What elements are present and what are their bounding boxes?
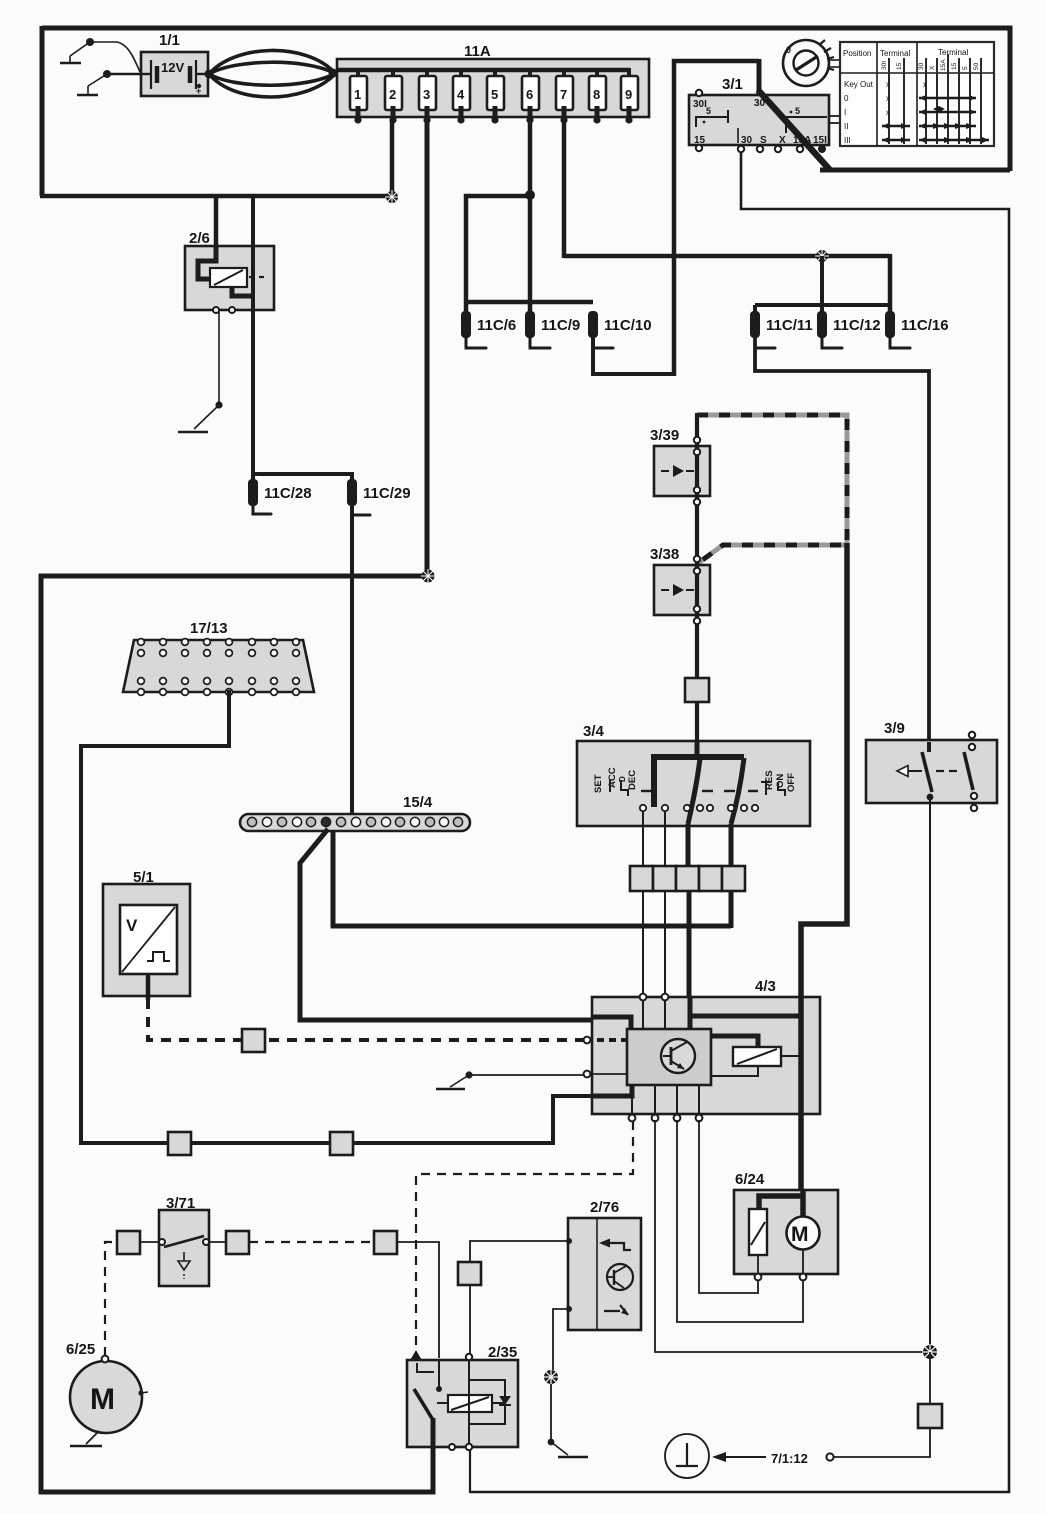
diode box 3/38 [650,546,710,624]
wire 11C/10 below [593,336,674,374]
wire main frame top [42,28,1010,171]
svg-text:6/24: 6/24 [735,1171,765,1188]
brake switch 3/9 [866,720,997,811]
svg-text:11C/6: 11C/6 [477,317,516,334]
wire harness bundle [205,50,338,97]
svg-text:X: X [779,135,786,146]
connector strip 15/4 [240,794,470,831]
ignition switch 3/1 [689,76,841,153]
wire 6/24 resistor return [699,1120,758,1293]
wire left border long [39,574,44,1494]
node dot 530,195 [525,190,535,200]
svg-text:6/25: 6/25 [66,1341,95,1358]
wire ground1 to battery [90,42,140,72]
svg-text:11C/11: 11C/11 [766,317,813,334]
svg-text:50: 50 [973,62,980,70]
svg-text:V: V [126,916,138,935]
svg-text:11C/9: 11C/9 [541,317,580,334]
wire dashed 5/1 to 4/3 [148,999,585,1040]
connector 11C/9 [525,311,580,348]
wire 6/24 motor return [677,1120,803,1322]
wire 2/76 to 2/35 via square [470,1241,568,1262]
wire dashed to square c [249,1241,374,1243]
svg-text:5: 5 [962,66,969,70]
wire bus 11C/11-16 [755,303,890,307]
ignition key symbol [783,40,840,86]
wire 2/6 feed drop [214,194,219,248]
arrow into 2/35 [409,1350,423,1362]
speedometer 5/1 [103,869,190,1000]
connector square on 5/1 dash [242,1029,265,1052]
wire square to 7/1:12 tag [833,1428,930,1457]
svg-text:0: 0 [786,45,791,55]
connector square below 3/38 [685,678,709,702]
svg-text:I: I [844,108,846,117]
svg-text:S: S [760,135,767,146]
wire 2/6 through to 11C/28 [251,220,255,480]
fuse 3 [419,68,436,124]
wire 15/4 diagonal to 4/3 feed [300,829,594,1020]
wire 2/35 right pin drop [469,1446,471,1493]
wire 2/6 ground lead [178,312,223,432]
svg-text:Terminal: Terminal [880,49,910,58]
svg-text:9: 9 [625,87,632,102]
svg-text:DEC: DEC [627,770,638,790]
svg-text:+: + [196,86,201,96]
wire dashed mech 4/3 to 2/35 [416,1121,633,1348]
svg-text:11C/12: 11C/12 [833,317,881,334]
svg-text:3/39: 3/39 [650,427,679,444]
svg-text:x: x [923,80,927,89]
wire into 3/1 term 30 [757,59,762,95]
svg-text:6: 6 [526,87,533,102]
battery 1/1 [141,32,208,96]
svg-text:Key Out: Key Out [844,80,874,89]
svg-text:2/76: 2/76 [590,1199,619,1216]
wire dashed-gray loop 3/39 net [697,415,847,564]
fuse 2 [385,68,402,124]
connector square b [226,1231,249,1254]
svg-text:2/35: 2/35 [488,1344,517,1361]
svg-text:15: 15 [951,62,958,70]
ground lead near 4/3 [436,1071,585,1089]
wire horizontal y256 [564,254,890,259]
svg-text:x: x [886,80,890,89]
svg-text:3/9: 3/9 [884,720,905,737]
node splice at 822,256 [815,249,829,263]
svg-text:ACC: ACC [607,767,618,788]
wire 2/6 feed upper [251,196,255,221]
svg-text:OFF: OFF [786,773,797,792]
node splice at 392,196 [385,190,399,204]
svg-text:30I: 30I [693,99,707,110]
connector 17/13 [123,620,314,695]
pedal switch 3/71 [159,1195,209,1286]
wire frame left [40,26,45,196]
relay 2/6 [185,230,274,313]
wire 11C/11 to 3/9 [755,337,929,742]
svg-text:II: II [844,122,848,131]
svg-text:15A: 15A [940,59,947,71]
connector 5-square row [630,866,745,891]
connector 11C/29 [347,479,411,515]
fuse 1 [350,68,367,124]
connector square x930 [918,1404,942,1428]
svg-text:11C/10: 11C/10 [604,317,652,334]
svg-text:5: 5 [795,106,800,116]
cruise switch 3/4 [577,723,810,826]
svg-text:7: 7 [560,87,567,102]
wire splice down to square [929,1352,931,1405]
connector 11C/6 [461,311,516,348]
svg-text:III: III [844,136,851,145]
connector square a on 3/71 line [117,1231,140,1254]
node splice lamp-style at 930,1352 [922,1344,938,1360]
wire 3/71 to square b [209,1241,226,1243]
wire x697 through diodes [695,413,699,745]
diode box 3/39 [650,427,710,505]
svg-text:4: 4 [457,87,465,102]
wire square to 2/35 [469,1285,471,1358]
svg-text:Position: Position [843,49,871,58]
wire bottom thick to 2/35 [39,1445,433,1492]
wire 11C/29 to 15/4 [350,506,354,816]
connector 11C/28 [248,479,312,514]
wire 3/1 pin30 loop right [470,149,1009,1492]
svg-text:30: 30 [918,62,925,70]
svg-text:x: x [886,108,890,117]
wire 11C/16 drop [888,254,893,313]
svg-text:12V: 12V [161,60,184,75]
node ring 7/1:12 [826,1453,833,1460]
svg-text:3: 3 [423,87,430,102]
svg-text:5: 5 [491,87,498,102]
svg-text:M: M [791,1223,809,1246]
connector 11C/10 [588,311,652,348]
wire fuse7 drop [562,119,567,258]
ground top-left 1 [60,38,94,63]
connector square on y1143 b [330,1132,353,1155]
wires below squares [643,891,731,999]
svg-text:0: 0 [844,94,849,103]
svg-text:3/38: 3/38 [650,546,679,563]
connector 11C/12 [817,311,881,348]
fuse 6 [522,68,539,124]
wire solid drop from 845,545 [801,543,847,999]
svg-text:11C/16: 11C/16 [901,317,949,334]
wires 3/4 to connector row [643,811,731,867]
connector square c [374,1231,397,1254]
svg-text:x: x [886,94,890,103]
wire fuse2 drop [390,119,395,196]
svg-text:Terminal: Terminal [938,48,968,57]
svg-text:X: X [929,65,936,70]
svg-text:2/6: 2/6 [189,230,210,247]
connector 11C/11 [750,311,813,348]
svg-text:11C/28: 11C/28 [264,485,312,502]
svg-text:11C/29: 11C/29 [363,485,411,502]
svg-text:M: M [90,1383,115,1416]
svg-text:4/3: 4/3 [755,978,776,995]
wire frame right bottom rail [820,168,1010,173]
lamp splice symbol [543,1369,559,1385]
fuse 5 [487,68,504,124]
fuse 8 [589,68,606,124]
wire bus 11C/6-10 [464,300,593,305]
wire square to 3/71 [140,1241,159,1243]
wire motor dashed to 3/71 [105,1242,117,1356]
svg-text:ON: ON [775,774,786,788]
wire lamp to ground [548,1384,588,1457]
control unit 2/76 [566,1199,641,1330]
wire square c to 2/35 [397,1242,439,1358]
label 7/1:12 with arrow [712,1451,808,1466]
relay 2/35 [407,1344,518,1450]
svg-text:2: 2 [389,87,396,102]
svg-text:30: 30 [741,135,753,146]
wire branch to 11C/6 [466,196,530,313]
svg-text:8: 8 [593,87,600,102]
wire horizontal y576 [39,574,427,579]
node splice at 428,576 [421,569,435,583]
wire 15/4 to OFF contact loop [333,830,731,926]
fuse box 11A [337,43,649,117]
svg-text:30I: 30I [881,61,888,70]
table ignition positions [840,42,994,146]
ground symbol circle [665,1434,709,1478]
wire fuse6 drop [528,119,533,313]
connector square x470 [458,1262,481,1285]
wire 4/3 pin to splice [655,1120,928,1352]
fuse 4 [453,68,470,124]
wire 4/3 to 6/24 [798,1114,804,1192]
connector square on y1143 a [168,1132,191,1155]
wire 3/9 down to splice [929,800,931,1352]
svg-text:1/1: 1/1 [159,32,180,49]
ground top-left 2 [77,70,111,95]
servo 6/24 [734,1171,838,1280]
motor 6/25 [66,1341,148,1446]
svg-text:15: 15 [896,62,903,70]
svg-text:3/4: 3/4 [583,723,605,740]
wire 17/13 to 4/3 path [81,690,594,1143]
cruise module 4/3 [584,978,820,1121]
wire 2/76 to indicator lamp [553,1309,568,1370]
svg-text:3/1: 3/1 [722,76,743,93]
svg-text:5: 5 [706,106,711,116]
wire frame bottom-left rail [40,194,392,199]
svg-text:15I: 15I [813,135,827,146]
svg-text:SET: SET [593,774,604,793]
svg-text:1: 1 [354,87,361,102]
wire fuse3 long drop [425,119,430,578]
wire riser x674 [674,61,759,376]
wire bridge 28-29 [253,474,352,480]
svg-text:17/13: 17/13 [190,620,228,637]
svg-text:15/4: 15/4 [403,794,433,811]
svg-text:7/1:12: 7/1:12 [771,1451,808,1466]
wire ground2 to battery [107,73,146,75]
svg-text:D: D [618,776,627,782]
wire 11C/12 drop [820,256,824,313]
connector 11C/16 [885,311,949,348]
svg-text:11A: 11A [464,43,491,60]
wire 3/1 internal diagonal [758,90,830,170]
wire 11C/11 riser [753,305,757,313]
fuse 9 [621,68,638,124]
fuse 7 [556,68,573,124]
